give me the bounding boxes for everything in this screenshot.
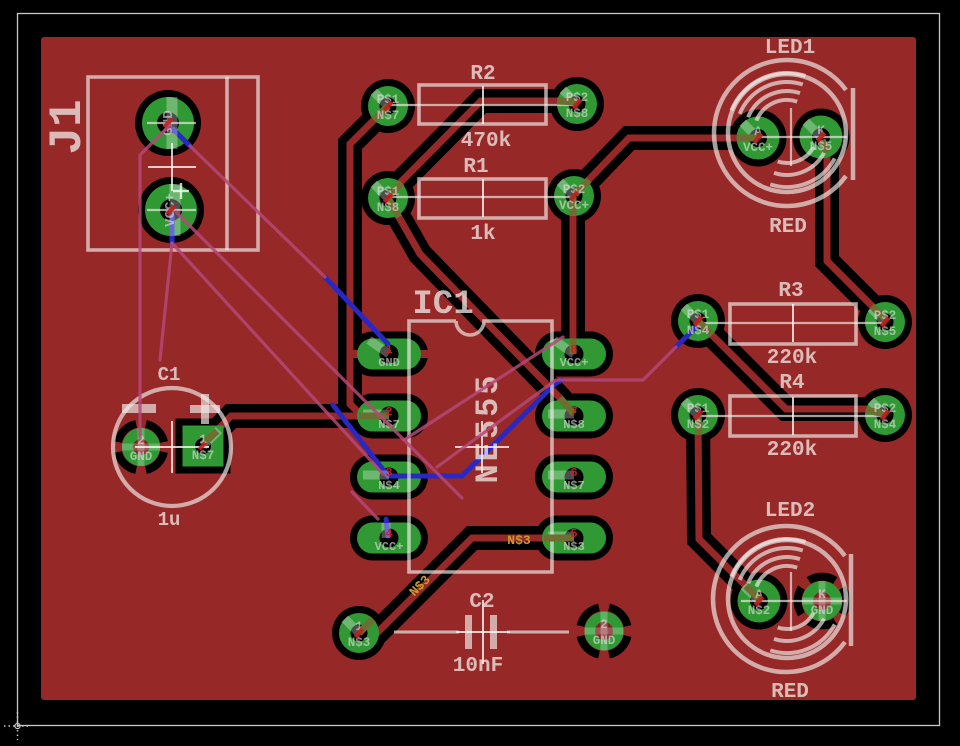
hole R4 pad 2 [877,407,894,424]
svg-text:3: 3 [385,466,392,480]
copper through pad LED1 pad K [822,140,827,152]
svg-text:VCC+: VCC+ [559,199,589,213]
LED2 lead line [741,600,847,602]
pad isolation R2 pad 1 [361,79,415,133]
name highlight IC1 pin 3 N$4 [363,471,389,480]
R4 lead line [700,415,883,417]
red origin mark R2 pad 2 [572,98,583,109]
pad IC1 pin 1 GND [357,339,421,370]
C2 origin cross [456,631,510,633]
R1 origin cross [482,179,484,217]
C1 plus sign [190,405,220,413]
copper through pad R1 pad 2 diag [575,180,589,194]
copper through pad IC1 pin 5 [544,535,574,542]
R2 origin cross [482,86,484,124]
svg-text:1k: 1k [470,223,495,246]
J1 pad 2 silk line [147,209,196,211]
hole IC1 pin 1 GND [380,345,399,364]
pad LED2 pad K GND [802,581,842,621]
resistor R3 outline [730,304,856,344]
pad J1 pad 2 VCC [145,184,197,236]
hole LED1 pad K [812,128,830,146]
name highlight C1 pad - GND [122,444,160,451]
red origin mark LED2 pad A [754,595,765,606]
copper through pad IC1 pin 7 [560,398,574,414]
thermal spokes IC1 pin 1 [349,350,359,358]
hole IC1 pin 8 VCC [565,345,584,364]
svg-text:N$4: N$4 [874,418,897,432]
svg-text:LED2: LED2 [765,500,815,523]
red origin mark R1 pad 1 [383,192,394,203]
pad isolation R3 pad 1 [671,294,725,348]
svg-text:IC1: IC1 [412,286,473,324]
IC1 origin cross [455,446,509,448]
pad R4 pad 2 [865,395,905,435]
svg-text:C1: C1 [158,364,181,386]
C1 origin cross [135,446,209,448]
svg-text:N$7: N$7 [377,109,400,123]
wire bottom IC1.4 stub [386,519,388,536]
hole IC1 pin 5 N$3 [565,529,584,548]
svg-text:GND: GND [378,356,400,370]
wire isolation T8 R3.1-R4.2 net N$4 [698,321,885,414]
copper through pad R4 pad 1 [698,415,699,435]
name highlight R4 pad 2 [871,401,885,415]
hole C1 + [195,438,211,454]
pad isolation C1 + [176,419,231,474]
red origin mark R4 pad 2 [880,409,891,420]
pad isolation R2 pad 2 [550,77,604,131]
hole LED2 pad K GND [813,592,831,610]
wire isolation T5 R1.2-IC1.8 net VCC [561,196,585,352]
svg-text:VCC+: VCC+ [375,540,404,554]
J1 origin cross [148,166,196,168]
red origin mark R3 pad 1 [693,315,704,326]
name highlight IC1 pin 2 N$7 [363,410,389,419]
pad isolation IC1 pin 5 N$3 [535,516,613,561]
wire copper T10 IC1.5-C2.1 net N$3 [359,538,573,633]
pad isolation LED1 pad K [793,109,850,166]
hole IC1 pin 4 VCC [380,529,399,548]
wire copper T2 C1.+-IC1.2 net N$7 [207,416,389,441]
pad R3 pad 2 [865,302,905,342]
LED1 lead line [741,136,847,138]
wire bottom IC1.3 to stub [391,380,562,476]
hole J1 pad 1 GND [157,112,179,134]
svg-text:R2: R2 [470,63,495,86]
hole C2 pad 2 GND [595,622,613,640]
hole IC1 pin 7 N$8 [565,407,584,426]
copper through pad R1 pad 2 up [570,196,577,216]
J1 pad 1 silk line [147,122,196,124]
pad R2 pad 1 [368,86,408,126]
pad IC1 pin 7 N$8 [542,401,606,432]
red origin mark C2 pad 1 [354,627,365,638]
svg-text:4: 4 [385,527,392,541]
pad IC1 pin 8 VCC [542,339,606,370]
copper through pad R3 pad 2 [872,306,885,319]
svg-text:N$2: N$2 [748,604,771,618]
hole IC1 pin 6 N$7 [565,468,584,487]
svg-text:GND: GND [593,634,616,648]
name highlight R1 pad 2 [560,182,574,196]
svg-text:N$2: N$2 [687,418,710,432]
copper through pad R1 pad 1 up [389,183,402,196]
svg-text:470k: 470k [461,130,511,153]
LED1 cross vertical [790,108,792,166]
hole R2 pad 1 [380,98,397,115]
hole IC1 pin 2 N$7 [380,407,399,426]
pad IC1 pin 5 N$3 [542,523,606,554]
pad isolation IC1 pin 3 N$4 [350,455,428,500]
name highlight LED2 pad K GND [802,598,842,605]
wire isolation T9 R4.1-LED2.A net N$2 [698,415,759,599]
svg-text:N$4: N$4 [378,479,400,493]
R3 lead line [700,322,883,324]
pad isolation IC1 pin 4 VCC [350,516,428,561]
hole C1 pad - GND [133,439,149,455]
red origin mark R2 pad 1 [383,100,394,111]
hole R1 pad 1 [380,190,397,207]
thermal isolation C1 pad - GND [146,452,164,470]
pad isolation J1 pad 2 VCC [138,177,204,243]
hole IC1 pin 3 N$4 [380,468,399,487]
name highlight LED1 pad A [743,123,758,138]
pad IC1 pin 4 VCC [357,523,421,554]
hole R4 pad 1 [690,407,707,424]
name highlight IC1 pin 5 N$3 [548,532,574,541]
pad IC1 pin 6 N$7 [542,462,606,493]
pad R1 pad 1 [368,178,408,218]
pad isolation IC1 pin 8 VCC [535,332,613,377]
name highlight C2 pad 1 [345,619,359,633]
wire bottom J1.1 stub [173,129,190,146]
svg-text:N$5: N$5 [810,140,833,154]
copper through pad R2 pad 2 [557,101,577,102]
pad R2 pad 2 [557,84,597,124]
hole R2 pad 2 [569,96,586,113]
name highlight IC1 pin 7 N$8 [548,410,574,419]
wire bottom R3.1 stub [676,326,697,347]
pad R3 pad 1 [678,301,718,341]
wire isolation T10 IC1.5-C2.1 net N$3 [359,538,573,633]
pad isolation IC1 pin 7 N$8 [535,394,613,439]
thermal isolation LED2 pad K GND [843,588,847,615]
R4 origin cross [792,397,794,435]
resistor R1 outline [419,179,546,218]
airwire IC1.8 [404,337,563,440]
svg-text:6: 6 [570,466,577,480]
thermal isolation C2 pad 2 GND [609,636,628,655]
wire copper T3 R2.2-R1.1 net N$8 [388,101,577,195]
pad isolation R4 pad 2 [858,388,912,442]
copper through pad IC1 pin 8 [570,339,577,354]
hole LED1 pad A [749,129,767,147]
wire isolation T6 LED1.A-R1.2 net VCC [575,138,758,194]
airwire IC1-R3.1 [437,347,676,467]
wire copper T8 R3.1-R4.2 net N$4 [698,321,885,414]
svg-text:10nF: 10nF [453,655,503,678]
copper through pad LED2 pad A [746,586,759,599]
name highlight C2 pad 2 GND [585,628,624,635]
name highlight IC1 pin 6 N$7 [548,471,574,480]
name highlight C1 + [203,430,219,446]
name highlight IC1 pin 4 VCC [382,523,391,538]
airwire J1.1-C1.- [140,125,170,437]
sheet origin cross (dotted) [4,712,31,740]
svg-text:N$5: N$5 [874,325,897,339]
svg-text:R3: R3 [778,280,803,303]
pad C2 pad 1 [339,613,379,653]
svg-text:LED1: LED1 [765,37,815,60]
hole C2 pad 1 [351,625,368,642]
name highlight R4 pad 1 [684,401,698,415]
svg-text:8: 8 [570,343,577,357]
svg-text:220k: 220k [767,347,817,370]
svg-text:VCC+: VCC+ [743,141,773,155]
svg-text:N$8: N$8 [377,201,400,215]
svg-text:7: 7 [570,405,577,419]
airwire J1.2-C1 [160,243,172,360]
wire bottom into IC1.1 [325,277,388,344]
svg-text:5: 5 [570,527,577,541]
red origin mark J1 pad 1 [163,117,174,128]
pad LED2 pad A [738,580,781,623]
capacitor C2 symbol [394,631,459,634]
LED2 dome arcs [756,566,797,587]
svg-text:N$7: N$7 [192,449,215,463]
capacitor C1 outline circle [113,388,231,506]
wire copper T9 R4.1-LED2.A net N$2 [698,415,759,599]
svg-text:2: 2 [600,618,608,632]
copper through pad R2 pad 1 [374,106,388,120]
resistor R2 outline [419,85,546,124]
svg-text:N$7: N$7 [563,479,585,493]
airwire to IC1.4 [352,492,378,519]
svg-text:N$3: N$3 [348,636,371,650]
pad isolation J1 pad 1 GND [135,90,201,156]
wire isolation T2 C1.+-IC1.2 net N$7 [207,416,389,441]
svg-text:C2: C2 [469,591,494,614]
wire isolation T1 R2.1-IC1.2 net N$7 [350,106,388,416]
red origin mark LED1 pad A [753,132,764,143]
pad LED1 pad K [800,116,843,159]
name highlight LED2 pad A [744,586,759,601]
pad isolation IC1 pin 6 N$7 [535,455,613,500]
pad isolation R3 pad 2 [858,295,912,349]
red origin mark J1 pad 2 [166,204,177,215]
C1 minus sign [122,404,156,413]
hole LED2 pad A [750,592,768,610]
svg-text:GND: GND [811,604,834,618]
resistor R4 outline [730,396,856,436]
copper through pad C2 pad 1 [359,619,373,633]
red origin mark R4 pad 1 [693,409,704,420]
copper through pad C1 + pad [203,431,217,444]
LED2 outline circles [713,526,845,672]
wire bottom into IC1.3 [333,405,388,476]
wire copper T4 R1.1-IC1.7 net N$8 [388,198,574,414]
svg-text:N$3: N$3 [507,533,531,548]
pad R1 pad 2 [554,176,594,216]
red origin mark R3 pad 2 [880,316,891,327]
pad IC1 pin 2 N$7 [357,401,421,432]
pad isolation C2 pad 1 [332,606,386,660]
wire bottom J1.2 stub [170,216,175,243]
svg-text:J1: J1 [42,99,94,154]
name highlight R1 pad 1 [374,184,388,198]
svg-text:RED: RED [769,216,807,239]
R3 origin cross [792,304,794,342]
wire isolation T4 R1.1-IC1.7 net N$8 [388,198,574,414]
hole R1 pad 2 [566,188,583,205]
J1 plus sign [173,183,189,199]
hole R3 pad 2 [877,314,894,331]
wire copper T1 R2.1-IC1.2 net N$7 [350,106,388,416]
copper through pad R3 pad 1 [698,321,712,335]
svg-text:1u: 1u [158,509,181,531]
svg-text:N$3: N$3 [563,540,585,554]
C2 plate bars [465,615,472,649]
wire isolation T3 R2.2-R1.1 net N$8 [388,101,577,195]
connector J1 outline [88,77,258,250]
svg-text:N$8: N$8 [566,107,589,121]
copper through pad R1 pad 1 down [388,198,399,217]
pad isolation IC1 pin 2 N$7 [350,394,428,439]
pad C1 + square [183,426,224,467]
copper through pad R4 pad 2 [866,410,885,414]
LED1 dome arcs [756,100,797,121]
wire copper T5 R1.2-IC1.8 net VCC [570,196,577,352]
name highlight J1 pad 1 GND [167,97,178,149]
hole R3 pad 1 [690,313,707,330]
svg-text:RED: RED [771,681,809,704]
red origin mark C1 pad + [198,441,207,450]
airwire J1.2-IC1.2 [176,212,462,498]
IC1 outline [409,321,552,572]
svg-text:GND: GND [130,450,153,464]
pad IC1 pin 3 N$4 [357,462,421,493]
R1 lead line [390,196,572,198]
pad isolation R4 pad 1 [671,388,725,442]
name highlight IC1 pin 1 GND [369,340,389,354]
pad isolation IC1 pin 1 GND [350,332,428,377]
LED2 cross vertical [790,572,792,631]
pad isolation R1 pad 2 [547,169,601,223]
svg-text:K: K [818,588,826,602]
wire copper T7 LED1.K-R3.1 net N$5 [822,138,885,319]
LED1 outline circles [714,60,846,206]
pad LED1 pad A [737,117,780,160]
svg-text:2: 2 [385,405,392,419]
name highlight J1 pad 2 VCC [170,184,181,236]
pad J1 pad 1 GND [142,97,194,149]
pad isolation LED1 pad A [730,110,787,167]
name highlight R3 pad 1 [684,307,698,321]
pad C1 pad - GND [122,428,160,466]
svg-text:R4: R4 [779,372,804,395]
name highlight R2 pad 1 [374,92,388,106]
pad isolation R1 pad 1 [361,171,415,225]
red origin mark LED1 pad K [816,131,827,142]
svg-text:220k: 220k [767,439,817,462]
hole J1 pad 2 VCC [160,199,182,221]
airwire J1.2-IC1.3 [172,243,383,474]
pad R4 pad 1 [678,395,718,435]
airwire J1.1-IC1.1 [190,146,325,277]
name highlight LED1 pad K [806,122,821,137]
wire copper T6 LED1.A-R1.2 net VCC [575,138,758,194]
red origin mark R1 pad 2 [569,190,580,201]
name highlight R2 pad 2 [563,90,577,104]
R2 lead line [390,104,574,106]
name highlight IC1 pin 8 VCC [554,340,574,354]
pad C2 pad 2 GND [585,612,624,651]
svg-text:R1: R1 [463,156,488,179]
svg-text:VCC+: VCC+ [560,356,589,370]
svg-text:N$8: N$8 [563,418,585,432]
copper through pad LED1 pad A [737,135,758,142]
svg-text:1: 1 [385,343,392,357]
name highlight R3 pad 2 [871,308,885,322]
wire isolation T7 LED1.K-R3.1 net N$5 [822,138,885,319]
svg-text:N$4: N$4 [687,324,710,338]
copper through pad IC1 pin 2 [359,413,389,420]
pad isolation LED2 pad A [731,573,788,630]
